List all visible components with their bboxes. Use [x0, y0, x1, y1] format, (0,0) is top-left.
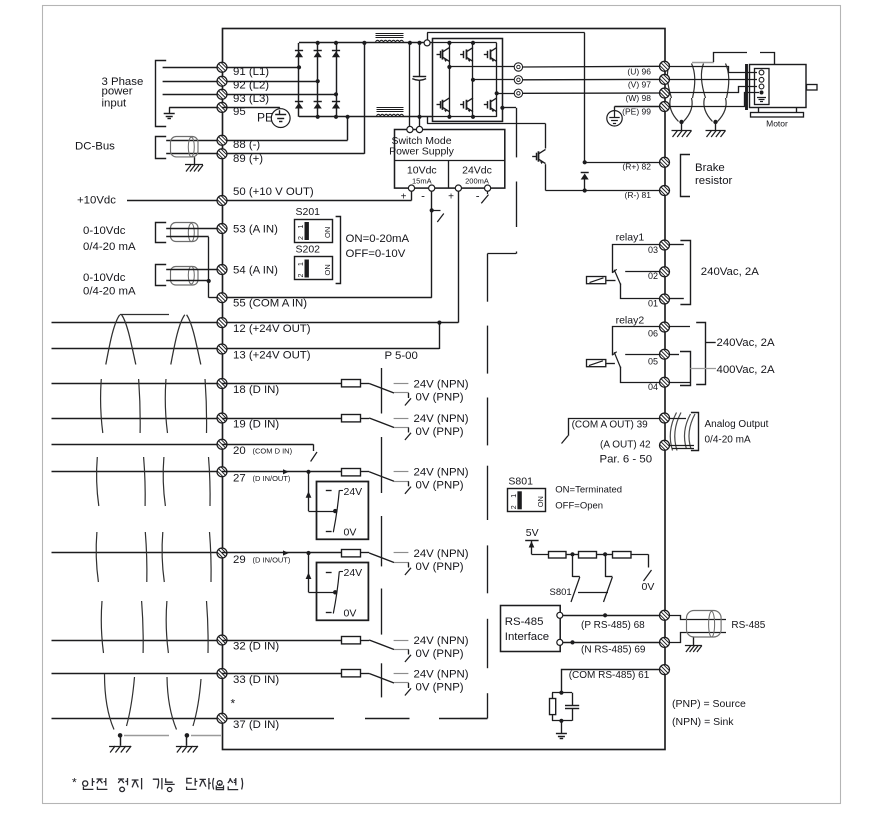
svg-text:0V: 0V [344, 527, 357, 539]
svg-text:OFF=0-10V: OFF=0-10V [346, 248, 406, 260]
svg-text:(D IN/OUT): (D IN/OUT) [253, 556, 291, 565]
svg-text:240Vac, 2A: 240Vac, 2A [701, 266, 759, 278]
svg-text:13 (+24V OUT): 13 (+24V OUT) [233, 350, 311, 362]
svg-text:55 (COM A IN): 55 (COM A IN) [233, 298, 307, 310]
svg-text:04: 04 [648, 382, 658, 392]
svg-text:93 (L3): 93 (L3) [233, 93, 269, 105]
svg-text:(PE) 99: (PE) 99 [622, 107, 651, 117]
svg-text:27: 27 [233, 473, 246, 485]
svg-text:24V (NPN): 24V (NPN) [414, 548, 469, 560]
svg-text:92 (L2): 92 (L2) [233, 80, 269, 92]
svg-text:ON: ON [536, 496, 545, 507]
svg-text:18 (D IN): 18 (D IN) [233, 384, 279, 396]
svg-text:OFF=Open: OFF=Open [555, 500, 603, 511]
svg-text:91 (L1): 91 (L1) [233, 66, 269, 78]
svg-text:(R+) 82: (R+) 82 [622, 162, 651, 172]
svg-text:+: + [448, 192, 454, 203]
svg-text:89 (+): 89 (+) [233, 153, 263, 165]
svg-text:input: input [102, 98, 128, 110]
svg-text:ON=0-20mA: ON=0-20mA [346, 233, 410, 245]
svg-text:03: 03 [648, 245, 658, 255]
svg-text:0V (PNP): 0V (PNP) [416, 391, 464, 403]
svg-text:24Vdc: 24Vdc [462, 164, 492, 176]
svg-text:32 (D IN): 32 (D IN) [233, 641, 279, 653]
svg-text:5V: 5V [526, 527, 539, 539]
svg-text:(P RS-485) 68: (P RS-485) 68 [581, 620, 645, 631]
svg-text:0-10Vdc: 0-10Vdc [83, 272, 126, 284]
svg-text:*: * [72, 776, 77, 790]
svg-text:12 (+24V OUT): 12 (+24V OUT) [233, 323, 311, 335]
svg-text:(V) 97: (V) 97 [628, 79, 651, 89]
svg-text:0/4-20 mA: 0/4-20 mA [705, 434, 751, 445]
svg-text:50 (+10 V OUT): 50 (+10 V OUT) [233, 186, 314, 198]
svg-text:ON=Terminated: ON=Terminated [555, 485, 622, 496]
svg-text:relay2: relay2 [616, 314, 645, 326]
svg-text:(R-) 81: (R-) 81 [625, 190, 652, 200]
svg-text:15mA: 15mA [412, 177, 432, 186]
svg-text:(COM RS-485) 61: (COM RS-485) 61 [569, 670, 650, 681]
svg-text:0V (PNP): 0V (PNP) [416, 480, 464, 492]
svg-text:ON: ON [323, 227, 332, 238]
svg-text:Brake: Brake [695, 162, 725, 174]
svg-text:24V: 24V [344, 567, 363, 579]
svg-text:RS-485: RS-485 [731, 620, 765, 631]
svg-text:20: 20 [233, 445, 246, 457]
svg-text:(D IN/OUT): (D IN/OUT) [253, 474, 291, 483]
svg-text:400Vac, 2A: 400Vac, 2A [717, 364, 775, 376]
svg-text:2: 2 [298, 236, 305, 240]
svg-text:0/4-20 mA: 0/4-20 mA [83, 241, 136, 253]
svg-text:Par. 6 - 50: Par. 6 - 50 [600, 453, 653, 465]
svg-text:1: 1 [298, 225, 305, 229]
svg-text:24V (NPN): 24V (NPN) [414, 413, 469, 425]
svg-text:ON: ON [323, 264, 332, 275]
svg-text:24V: 24V [344, 486, 363, 498]
svg-text:0/4-20 mA: 0/4-20 mA [83, 286, 136, 298]
svg-text:resistor: resistor [695, 175, 733, 187]
svg-text:Interface: Interface [505, 631, 549, 643]
svg-text:RS-485: RS-485 [505, 616, 544, 628]
svg-text:+10Vdc: +10Vdc [77, 195, 116, 207]
svg-text:0V: 0V [344, 608, 357, 620]
svg-text:PE: PE [257, 110, 273, 124]
svg-text:24V (NPN): 24V (NPN) [414, 668, 469, 680]
svg-text:0V (PNP): 0V (PNP) [416, 648, 464, 660]
svg-text:02: 02 [648, 271, 658, 281]
svg-text:-: - [421, 191, 425, 203]
svg-text:(A OUT) 42: (A OUT) 42 [600, 439, 651, 450]
svg-text:24V (NPN): 24V (NPN) [414, 635, 469, 647]
svg-text:88 (-): 88 (-) [233, 139, 260, 151]
svg-text:(PNP) = Source: (PNP) = Source [672, 698, 746, 710]
svg-text:(NPN) = Sink: (NPN) = Sink [672, 716, 734, 728]
svg-text:200mA: 200mA [465, 177, 489, 186]
svg-text:DC-Bus: DC-Bus [75, 140, 115, 152]
svg-text:24V (NPN): 24V (NPN) [414, 467, 469, 479]
svg-text:relay1: relay1 [616, 231, 645, 243]
svg-text:0V: 0V [642, 581, 655, 593]
svg-text:S201: S201 [296, 206, 321, 218]
svg-text:Motor: Motor [766, 119, 788, 129]
svg-text:0V (PNP): 0V (PNP) [416, 681, 464, 693]
svg-text:240Vac, 2A: 240Vac, 2A [717, 337, 775, 349]
svg-text:S801: S801 [508, 475, 533, 487]
svg-text:P 5-00: P 5-00 [385, 350, 418, 362]
svg-text:19 (D IN): 19 (D IN) [233, 419, 279, 431]
svg-text:2: 2 [298, 274, 305, 278]
svg-text:1: 1 [511, 494, 518, 498]
svg-text:(COM D IN): (COM D IN) [253, 446, 293, 455]
svg-text:33 (D IN): 33 (D IN) [233, 674, 279, 686]
svg-text:1: 1 [298, 262, 305, 266]
svg-text:0-10Vdc: 0-10Vdc [83, 225, 126, 237]
svg-text:06: 06 [648, 328, 658, 338]
svg-text:01: 01 [648, 298, 658, 308]
svg-text:05: 05 [648, 356, 658, 366]
svg-text:0V (PNP): 0V (PNP) [416, 426, 464, 438]
svg-text:(COM A OUT) 39: (COM A OUT) 39 [572, 420, 649, 431]
svg-text:2: 2 [511, 505, 518, 509]
svg-text:37 (D IN): 37 (D IN) [233, 719, 279, 731]
svg-text:53 (A IN): 53 (A IN) [233, 223, 278, 235]
svg-text:S202: S202 [296, 244, 321, 256]
svg-text:-: - [476, 191, 480, 203]
svg-text:S801: S801 [550, 587, 572, 598]
svg-text:0V (PNP): 0V (PNP) [416, 561, 464, 573]
svg-text:(N RS-485) 69: (N RS-485) 69 [581, 645, 646, 656]
svg-text:(W) 98: (W) 98 [626, 93, 652, 103]
svg-text:24V (NPN): 24V (NPN) [414, 378, 469, 390]
svg-text:(U) 96: (U) 96 [627, 67, 651, 77]
svg-text:10Vdc: 10Vdc [407, 164, 437, 176]
svg-text:power: power [102, 86, 133, 98]
svg-text:Power Supply: Power Supply [389, 146, 455, 158]
svg-text:Analog Output: Analog Output [705, 419, 769, 430]
svg-text:29: 29 [233, 554, 246, 566]
svg-text:54 (A IN): 54 (A IN) [233, 264, 278, 276]
svg-text:*: * [231, 697, 236, 711]
